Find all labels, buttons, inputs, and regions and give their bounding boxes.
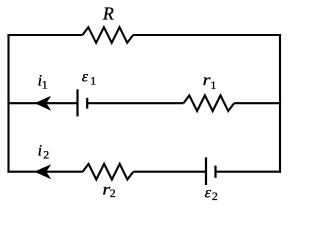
wire: left vertical	[7, 34, 9, 173]
resistor r2	[83, 164, 134, 200]
svg-text:R: R	[102, 4, 114, 24]
wire: bottom rail right segment	[216, 171, 282, 173]
svg-text:1: 1	[90, 74, 96, 88]
svg-text:ε: ε	[205, 184, 212, 201]
resistor r1	[184, 71, 235, 111]
battery EMF e1 : long plate	[76, 89, 78, 116]
battery EMF e2 : long plate	[205, 157, 207, 185]
svg-text:ε: ε	[82, 69, 89, 86]
svg-text:i: i	[38, 142, 42, 159]
arrow for current i2	[35, 165, 50, 179]
label i1	[38, 72, 48, 91]
battery EMF e1 : short plate	[86, 98, 88, 109]
label epsilon1	[82, 69, 97, 88]
wire: bottom rail center segment	[133, 171, 205, 173]
wire: top rail right segment	[133, 34, 281, 36]
wire: middle rail center segment	[87, 102, 183, 104]
arrow for current i1	[36, 96, 51, 110]
wire: middle rail left segment	[7, 102, 76, 104]
label i2	[38, 142, 50, 161]
svg-text:2: 2	[110, 186, 116, 200]
label epsilon2	[205, 184, 218, 203]
svg-text:2: 2	[212, 189, 218, 203]
svg-text:1: 1	[42, 77, 48, 91]
wire: top rail left segment	[7, 34, 82, 36]
wire: bottom rail left segment	[7, 171, 82, 173]
svg-text:1: 1	[210, 78, 216, 92]
wire: middle rail right segment	[234, 102, 281, 104]
wire: right vertical	[279, 34, 281, 173]
resistor R	[83, 4, 134, 43]
svg-text:2: 2	[43, 147, 49, 161]
battery EMF e2 : short plate	[214, 166, 216, 178]
